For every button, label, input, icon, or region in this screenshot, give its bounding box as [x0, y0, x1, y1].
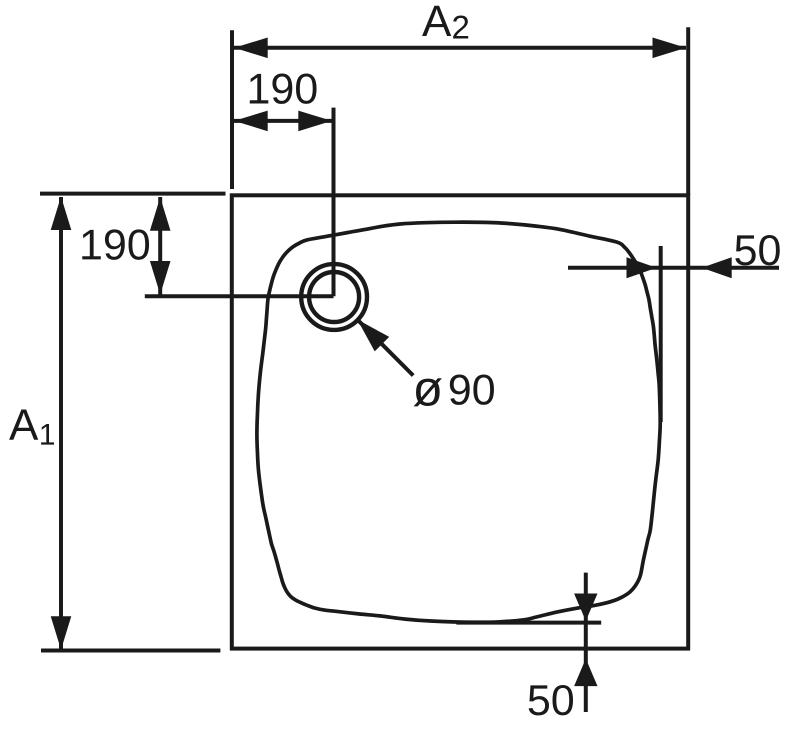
outer square (tray outer edge, top view)	[232, 195, 688, 648]
190 left arrow up	[150, 197, 171, 231]
top edge extension line to the left	[40, 192, 226, 196]
bottom 50 arrow pointing down	[574, 594, 597, 622]
190 top: extension line down to drain centre	[332, 108, 336, 297]
A2 right extension line	[686, 27, 690, 195]
right 50 reference line (rim edge)	[659, 246, 663, 422]
tray basin outline (rounded squircle)	[257, 222, 660, 622]
dimension A1 vertical line	[59, 197, 63, 649]
label diameter 90	[414, 378, 442, 406]
label A1	[9, 410, 38, 440]
dimension A2 horizontal line	[234, 46, 686, 50]
right 50 arrow pointing right	[627, 257, 657, 278]
drain centre horizontal line	[145, 294, 334, 298]
190 left dimension line	[158, 197, 162, 295]
bottom 50 arrow pointing up	[574, 659, 597, 687]
label A2	[422, 6, 451, 36]
190 top arrow right	[298, 111, 332, 132]
190 top dimension line	[234, 119, 332, 123]
A2 arrow left	[234, 38, 268, 59]
label 190 top	[250, 73, 317, 103]
drain inner circle	[309, 272, 359, 322]
right 50 dimension line	[568, 266, 779, 270]
A1 arrow up	[51, 197, 72, 231]
label 50 right	[735, 235, 779, 265]
bottom edge extension line to the left	[41, 649, 220, 653]
label 190 left	[82, 229, 149, 259]
190 top arrow left	[234, 111, 268, 132]
A2 left extension line	[230, 30, 234, 189]
190 left arrow down	[150, 261, 171, 295]
A1 arrow down	[51, 616, 72, 650]
bottom 50 dimension line	[584, 573, 588, 712]
drain leader line	[357, 319, 413, 375]
bottom 50 reference line (rim edge)	[456, 621, 601, 625]
drain outer circle	[301, 264, 367, 330]
label 50 bottom	[529, 685, 573, 715]
drain leader arrowhead	[357, 319, 389, 351]
right 50 arrow pointing left	[702, 257, 732, 278]
A2 arrow right	[653, 38, 687, 59]
